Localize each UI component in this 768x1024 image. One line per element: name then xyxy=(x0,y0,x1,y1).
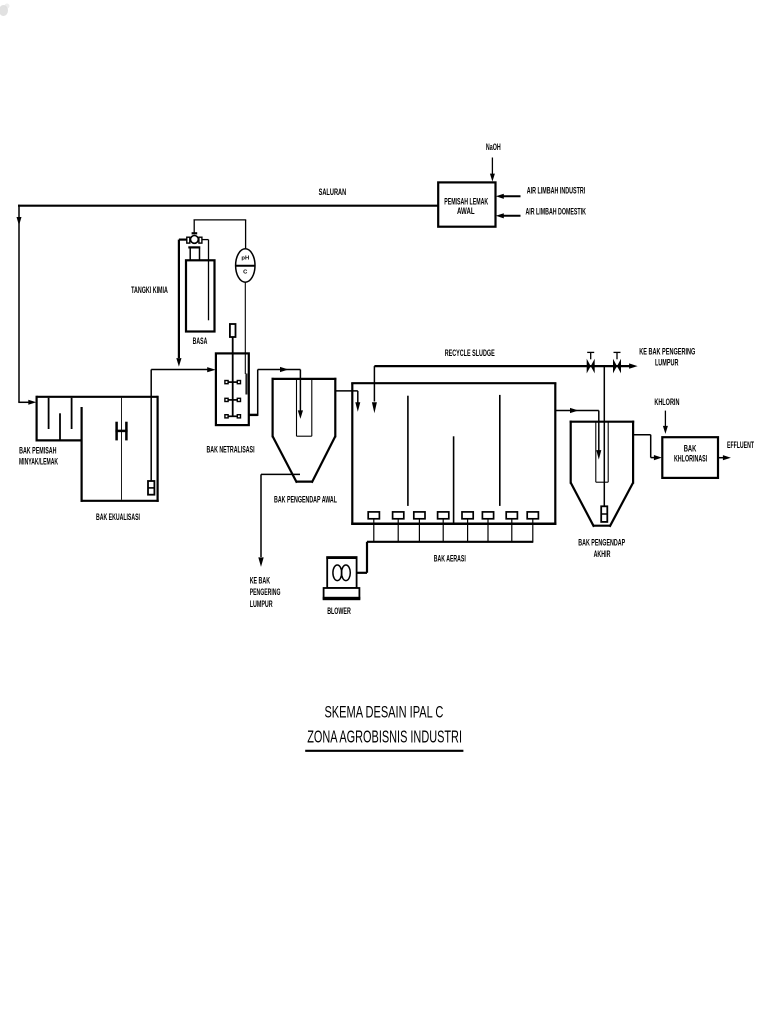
svg-text:AIR LIMBAH INDUSTRI: AIR LIMBAH INDUSTRI xyxy=(527,186,586,196)
svg-text:SALURAN: SALURAN xyxy=(319,187,347,197)
svg-text:ZONA AGROBISNIS INDUSTRI: ZONA AGROBISNIS INDUSTRI xyxy=(307,726,462,746)
svg-text:BAK AERASI: BAK AERASI xyxy=(434,553,466,563)
svg-text:BASA: BASA xyxy=(193,336,208,346)
svg-text:KHLORIN: KHLORIN xyxy=(654,397,679,407)
svg-text:pH: pH xyxy=(241,255,249,261)
svg-text:NaOH: NaOH xyxy=(486,142,501,152)
svg-text:RECYCLE SLUDGE: RECYCLE SLUDGE xyxy=(445,348,495,358)
svg-text:KE BAK PENGERING: KE BAK PENGERING xyxy=(639,347,695,357)
svg-text:MINYAK/LEMAK: MINYAK/LEMAK xyxy=(19,457,58,467)
svg-text:AIR LIMBAH DOMESTIK: AIR LIMBAH DOMESTIK xyxy=(526,207,587,217)
svg-text:BAK NETRALISASI: BAK NETRALISASI xyxy=(206,445,254,455)
svg-text:BAK PEMISAH: BAK PEMISAH xyxy=(19,445,56,455)
svg-text:TANGKI KIMIA: TANGKI KIMIA xyxy=(131,285,168,295)
svg-text:BAK PENGENDAP: BAK PENGENDAP xyxy=(578,538,625,548)
svg-text:AWAL: AWAL xyxy=(457,206,475,216)
svg-text:SKEMA DESAIN IPAL C: SKEMA DESAIN IPAL C xyxy=(324,703,443,722)
svg-text:KHLORINASI: KHLORINASI xyxy=(674,454,707,464)
svg-text:AKHIR: AKHIR xyxy=(594,549,611,559)
svg-text:EFFLUENT: EFFLUENT xyxy=(727,440,754,450)
svg-text:BAK EKUALISASI: BAK EKUALISASI xyxy=(96,512,140,522)
svg-text:BLOWER: BLOWER xyxy=(327,606,351,616)
svg-text:BAK PENGENDAP AWAL: BAK PENGENDAP AWAL xyxy=(274,494,337,504)
svg-text:KE BAK: KE BAK xyxy=(250,575,271,585)
svg-text:LUMPUR: LUMPUR xyxy=(655,357,679,367)
svg-text:PENGERING: PENGERING xyxy=(250,587,281,597)
svg-text:BAK: BAK xyxy=(684,443,697,453)
svg-text:C: C xyxy=(243,270,248,276)
svg-text:LUMPUR: LUMPUR xyxy=(250,599,273,609)
